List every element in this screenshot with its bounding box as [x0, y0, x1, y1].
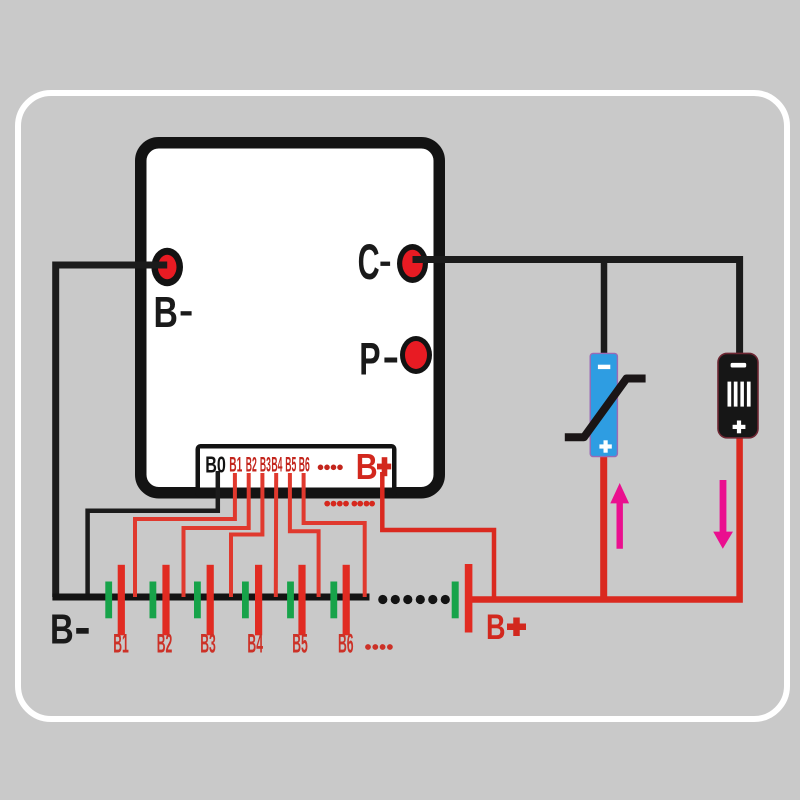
charger plug symbol — [565, 379, 646, 438]
svg-text:B: B — [486, 607, 506, 647]
svg-text:B: B — [154, 288, 178, 337]
label C- — [358, 234, 391, 290]
battery series dots — [378, 595, 450, 604]
svg-text:B1: B1 — [229, 453, 242, 476]
label P- — [359, 334, 397, 385]
battery cell B6 — [330, 565, 349, 636]
load — [718, 353, 758, 437]
battery negative bus — [52, 594, 369, 601]
svg-text:B6: B6 — [299, 453, 310, 476]
wire B+ sense — [382, 472, 494, 600]
wire B6 sense — [304, 473, 365, 597]
charger — [590, 353, 617, 456]
battery cell B4 — [242, 565, 262, 636]
BMS board U1 — [141, 143, 440, 493]
svg-text:B6: B6 — [338, 628, 354, 658]
label B+ battery — [486, 607, 526, 647]
wire B1 sense — [135, 473, 235, 597]
wire B5 sense — [290, 473, 319, 597]
svg-text:B: B — [356, 446, 378, 487]
svg-text:B5: B5 — [292, 628, 308, 658]
svg-text:P: P — [359, 334, 380, 385]
strip dots — [318, 465, 343, 471]
battery cell B5 — [287, 565, 306, 636]
svg-text:B: B — [50, 606, 74, 653]
wire B3 sense — [231, 473, 262, 597]
battery cell Bn last — [452, 564, 473, 633]
svg-text:B3: B3 — [260, 453, 271, 476]
wire C- to charger and load — [413, 260, 740, 356]
svg-text:B4: B4 — [271, 453, 282, 476]
arrow charging current — [610, 483, 629, 549]
svg-text:B0: B0 — [205, 452, 226, 478]
svg-text:B2: B2 — [246, 453, 257, 476]
battery label dots — [365, 644, 393, 650]
label B- battery — [50, 606, 89, 653]
battery cell B1 — [105, 565, 125, 636]
svg-text:B4: B4 — [247, 628, 263, 658]
battery cell B3 — [194, 565, 214, 636]
wire B0 sense — [88, 471, 218, 597]
pad C- — [397, 244, 428, 283]
red wire charger positive — [600, 456, 607, 600]
label B+ strip — [356, 446, 391, 487]
svg-text:B5: B5 — [285, 453, 296, 476]
battery cell B2 — [150, 565, 170, 636]
wire B- to battery — [56, 265, 168, 597]
wire branch to charger — [601, 260, 608, 356]
svg-text:C: C — [358, 234, 380, 290]
pad P- — [400, 336, 432, 374]
svg-text:B2: B2 — [157, 628, 173, 658]
label B- board — [154, 288, 192, 337]
sense dots below strip — [324, 501, 375, 507]
svg-text:B1: B1 — [113, 628, 129, 658]
wire B4 sense — [274, 473, 278, 597]
pad B- — [151, 248, 183, 286]
wire B2 sense — [184, 473, 249, 597]
terminal strip — [196, 444, 397, 498]
svg-text:B3: B3 — [200, 628, 216, 658]
arrow discharge current — [713, 480, 733, 549]
red bus B+ to load — [468, 437, 739, 600]
